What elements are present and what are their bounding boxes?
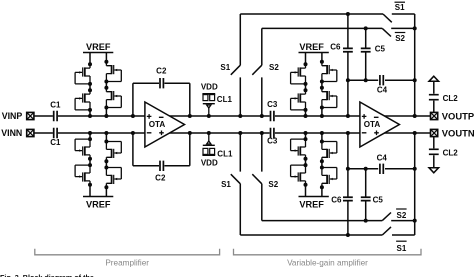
transistor (diode-connected MOSFET, top VREF1 right string upper) [104, 60, 121, 82]
capacitor C5 (bottom) with leads [365, 169, 367, 221]
svg-text:VINN: VINN [1, 128, 22, 138]
VREF rail (bottom VREF1) [83, 196, 113, 198]
op-amp OTA2 (variable-gain amplifier) [360, 102, 400, 147]
svg-text:C3: C3 [267, 100, 278, 109]
wire OTA2 top feedback line [348, 80, 415, 116]
node dots (top VREF1 strings) [88, 80, 108, 119]
svg-text:C2: C2 [156, 67, 167, 76]
wire C2 top feedback loop [133, 83, 190, 116]
transistor (diode-connected MOSFET, bottom VREF2 left string upper) [291, 139, 308, 161]
svg-text:S2: S2 [268, 180, 278, 189]
junction dots (output nodes) [413, 114, 417, 135]
switch S2bar (top, blade) [382, 28, 391, 36]
transistor (diode-connected MOSFET, bottom VREF1 right string upper) [104, 142, 121, 164]
wire VREF rail to MOS string (bottom VREF2) [306, 133, 322, 197]
capacitor C6 (top) with leads [347, 14, 349, 80]
wire VINP signal line (y=116, with series breaks at C1 and C3) [34, 115, 431, 117]
transistor (diode-connected MOSFET, bottom VREF1 right string lower) [104, 168, 121, 190]
capacitor CL2 (top) with supply arrow [433, 81, 435, 112]
svg-text:VREF: VREF [299, 199, 324, 209]
transistor (diode-connected MOSFET, top VREF2 left string lower) [291, 88, 308, 110]
output pad VOUTP [431, 112, 438, 119]
transistor (diode-connected MOSFET, bottom VREF2 left string lower) [291, 165, 308, 187]
svg-text:S1: S1 [221, 180, 231, 189]
node dots (top VREF2 strings) [304, 80, 324, 119]
capacitor C4 (top feedback) [380, 75, 383, 85]
wire C2 bottom feedback loop [133, 133, 190, 166]
svg-text:VOUTP: VOUTP [442, 110, 474, 121]
MOS capacitor CL1 (top, to VDD) [202, 94, 215, 116]
switch S1 (top, VINP to outer bypass) [231, 14, 241, 116]
transistor (diode-connected MOSFET, bottom VREF1 left string upper) [75, 139, 92, 161]
svg-text:S2: S2 [395, 34, 405, 43]
wire VREF rail to MOS string (bottom VREF1) [90, 133, 106, 197]
wire OTA2 bottom feedback line [348, 133, 415, 169]
transistor (diode-connected MOSFET, top VREF1 left string upper) [75, 62, 92, 84]
svg-text:C5: C5 [375, 45, 386, 54]
wire outer bypass line (top, S1/S1bar net) [240, 13, 414, 15]
svg-text:S1: S1 [395, 3, 405, 12]
capacitor CL2 (bottom) with supply arrow [433, 137, 435, 168]
transistor (diode-connected MOSFET, top VREF2 right string lower) [320, 86, 337, 108]
capacitor C2 (top feedback) [160, 78, 163, 88]
transistor (diode-connected MOSFET, bottom VREF2 right string lower) [320, 168, 337, 190]
svg-text:OTA: OTA [149, 120, 166, 129]
switch S2 (top, VINP to inner bypass) [252, 28, 261, 116]
switch S2 (bottom, VINN to inner bypass) [252, 133, 261, 221]
svg-text:VREF: VREF [86, 42, 111, 52]
svg-text:Variable-gain amplifier: Variable-gain amplifier [287, 258, 368, 267]
input pad VINP [27, 112, 34, 119]
capacitor C5 (top) with leads [365, 28, 367, 80]
svg-text:S2: S2 [397, 211, 407, 220]
transistor (diode-connected MOSFET, top VREF2 right string upper) [320, 60, 337, 82]
wire VREF rail to MOS string (top VREF1) [90, 53, 106, 117]
switch S1bar (top, blade) [383, 14, 392, 22]
transistor (diode-connected MOSFET, top VREF1 left string lower) [75, 88, 92, 110]
switch S2bar (bottom, blade) [382, 213, 391, 221]
svg-text:C3: C3 [267, 137, 278, 146]
junction dots (C2 taps on signal lines) [131, 114, 192, 135]
svg-text:VDD: VDD [201, 83, 218, 92]
transistor (diode-connected MOSFET, top VREF1 right string lower) [104, 86, 121, 108]
svg-text:Preamplifier: Preamplifier [105, 258, 149, 267]
wire outer bypass line (bottom, S1/S1bar net) [240, 234, 414, 236]
wire right vertical (VOUTN to bottom bypass) [414, 133, 416, 235]
bracket (Preamplifier section) [35, 249, 220, 255]
svg-text:C6: C6 [330, 43, 341, 52]
op-amp OTA1 (preamplifier) [145, 102, 185, 147]
capacitor C6 (bottom) with leads [347, 169, 349, 235]
VREF rail (top VREF2) [299, 52, 329, 54]
svg-text:C1: C1 [50, 101, 61, 110]
wire inner bypass line (bottom, S2/S2bar net) [262, 220, 415, 222]
VREF rail (top VREF1) [83, 52, 113, 54]
node dots (bottom VREF2 strings) [304, 131, 324, 170]
transistor (diode-connected MOSFET, bottom VREF1 left string lower) [75, 165, 92, 187]
svg-text:VINP: VINP [2, 111, 23, 121]
svg-text:S1: S1 [220, 63, 230, 72]
switch S1 (bottom, VINN to outer bypass) [231, 133, 241, 235]
transistor (diode-connected MOSFET, top VREF2 left string upper) [291, 62, 308, 84]
wire VREF rail to MOS string (top VREF2) [306, 53, 322, 117]
wire VINN signal line (y=133, with series breaks at C1 and C3) [34, 132, 431, 134]
svg-text:C5: C5 [373, 196, 384, 205]
svg-text:C4: C4 [377, 85, 388, 94]
transistor (diode-connected MOSFET, bottom VREF2 right string upper) [320, 142, 337, 164]
wire right vertical (top bypass to VOUTP) [414, 14, 416, 116]
svg-text:VDD: VDD [201, 159, 218, 168]
capacitor C4 (bottom feedback) [380, 164, 383, 174]
svg-text:CL1: CL1 [217, 149, 233, 158]
MOS capacitor CL1 (bottom, to VDD) [202, 133, 215, 155]
capacitor C1 (bottom, series on VINN) [54, 128, 57, 138]
svg-text:VOUTN: VOUTN [442, 128, 474, 139]
svg-text:VREF: VREF [299, 42, 324, 52]
svg-text:CL2: CL2 [443, 94, 459, 103]
svg-text:CL2: CL2 [443, 149, 459, 158]
capacitor C3 (top, series on VINP) [271, 111, 274, 121]
svg-text:Fig. 3. Block diagram of the: Fig. 3. Block diagram of the [0, 273, 94, 277]
svg-text:S1: S1 [397, 244, 407, 253]
capacitor C1 (top, series on VINP) [54, 111, 57, 121]
node dots (bottom VREF1 strings) [88, 131, 108, 170]
bracket (Variable-gain amplifier section) [234, 249, 422, 255]
svg-text:C2: C2 [155, 173, 166, 182]
capacitor C2 (bottom feedback) [160, 161, 163, 171]
svg-text:OTA: OTA [364, 120, 381, 129]
capacitor C3 (bottom, series on VINN) [271, 128, 274, 138]
svg-text:CL1: CL1 [217, 95, 233, 104]
svg-text:S2: S2 [269, 63, 279, 72]
wire inner bypass line (top, S2/S2bar net) [262, 27, 415, 29]
svg-text:VREF: VREF [86, 199, 111, 209]
input pad VINN [27, 129, 34, 136]
svg-text:C1: C1 [50, 138, 61, 147]
VREF rail (bottom VREF2) [299, 196, 329, 198]
switch S1bar (bottom, blade) [382, 227, 391, 235]
svg-text:C6: C6 [331, 196, 342, 205]
output pad VOUTN [431, 129, 438, 136]
svg-text:C4: C4 [377, 154, 388, 163]
